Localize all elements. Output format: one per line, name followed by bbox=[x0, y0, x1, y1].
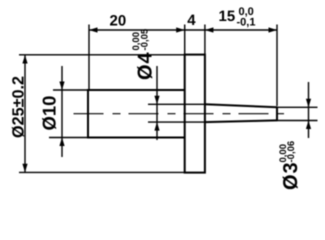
svg-text:Ø10: Ø10 bbox=[39, 96, 60, 131]
svg-text:Ø3: Ø3 bbox=[280, 161, 302, 190]
svg-text:-0,05: -0,05 bbox=[140, 28, 151, 50]
svg-text:15: 15 bbox=[219, 8, 236, 25]
svg-text:20: 20 bbox=[110, 12, 127, 29]
svg-text:Ø4: Ø4 bbox=[135, 51, 157, 80]
svg-text:-0,1: -0,1 bbox=[237, 16, 256, 28]
svg-text:Ø25±0.2: Ø25±0.2 bbox=[10, 76, 28, 138]
svg-text:4: 4 bbox=[187, 12, 196, 29]
svg-text:-0,06: -0,06 bbox=[286, 141, 297, 163]
